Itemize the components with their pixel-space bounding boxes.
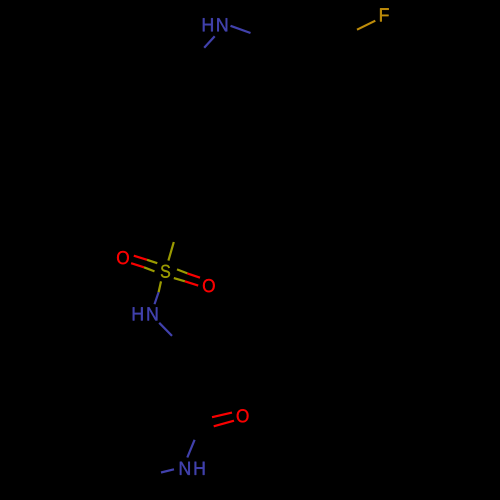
double bond S=O left, upper line red half [134, 256, 147, 260]
atom S label [161, 265, 170, 278]
atom F label [380, 8, 389, 21]
bond S-N sulfonamide, olive half [159, 281, 161, 292]
bond N1-C2 (blue half) [231, 26, 251, 33]
double bond S=O right, lower line olive half [174, 278, 185, 281]
atom O left label [117, 251, 129, 264]
bond S-N sulfonamide, blue half [155, 292, 159, 304]
bond C6-F (gold half) [357, 21, 375, 30]
double bond S=O right, lower line red half [185, 281, 198, 285]
double bond S=O left, lower line olive half [144, 267, 155, 271]
atom N sulfonamide HN label [133, 307, 158, 320]
atom O right label [203, 279, 215, 292]
atom N1 indole NH label [203, 18, 227, 31]
double bond C=O lactam, lower line red half [214, 421, 234, 427]
atom O lactam label [237, 409, 249, 422]
atom N lactam NH label [180, 462, 205, 475]
bond C-S upper (olive half) [168, 242, 173, 261]
double bond C=O lactam, upper line red half [212, 413, 232, 418]
double bond S=O left, upper line olive half [147, 260, 157, 263]
double bond S=O right, upper line red half [187, 273, 200, 277]
bond N-CH2 (blue half) [159, 323, 172, 336]
double bond S=O right, upper line olive half [177, 269, 187, 273]
bond N1-C7a (blue half) [204, 36, 215, 48]
bond N-C(=O) lactam (blue half) [187, 440, 194, 458]
bond N-CH2 lactam (blue half) [161, 469, 174, 472]
double bond S=O left, lower line red half [131, 263, 144, 267]
